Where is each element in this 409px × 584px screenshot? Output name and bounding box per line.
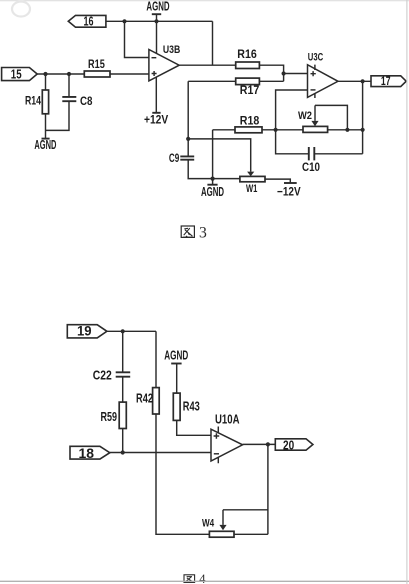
- wire W4 wiper bracket: [223, 509, 268, 511]
- op-amp U3B: [149, 50, 179, 81]
- wire to U3C + input: [284, 73, 308, 75]
- page bottom rule: [0, 580, 409, 582]
- resistor R18: [235, 127, 262, 133]
- svg-text:U3C: U3C: [308, 51, 323, 63]
- svg-text:19: 19: [77, 323, 92, 339]
- svg-text:R14: R14: [25, 96, 41, 108]
- junction dot: [266, 442, 270, 446]
- capacitor C22: [122, 331, 124, 372]
- net tag 15: [2, 68, 38, 81]
- svg-text:U3B: U3B: [163, 44, 180, 56]
- W4 wiper arrow: [222, 510, 224, 525]
- wire R17 right: [259, 80, 283, 82]
- wire feedback vertical fig4: [267, 444, 269, 534]
- svg-text:C22: C22: [93, 368, 112, 382]
- svg-text:R15: R15: [88, 59, 105, 71]
- resistor R43: [173, 393, 180, 420]
- svg-text:R43: R43: [183, 400, 200, 414]
- caption 图3: [181, 226, 194, 237]
- potentiometer W2: [303, 126, 328, 132]
- net tag 19: [67, 325, 107, 338]
- net tag 16: [68, 15, 106, 27]
- junction dot: [154, 19, 158, 23]
- junction dot: [121, 329, 125, 333]
- net tag 18: [70, 446, 110, 459]
- svg-text:R42: R42: [136, 391, 153, 405]
- wire U10A output: [243, 443, 276, 445]
- wire W2 wiper bracket: [315, 105, 347, 129]
- svg-text:R17: R17: [240, 83, 260, 97]
- wire R17-left vertical: [187, 81, 189, 156]
- svg-text:16: 16: [84, 15, 94, 29]
- resistor R16: [236, 62, 260, 69]
- wire R17 left: [188, 80, 236, 82]
- svg-text:W4: W4: [202, 518, 215, 530]
- wire U3B output: [179, 64, 236, 66]
- svg-text:C9: C9: [169, 153, 179, 165]
- page top rule: [0, 0, 409, 2]
- junction dot: [274, 128, 278, 132]
- resistor R59: [119, 402, 126, 428]
- svg-text:U10A: U10A: [215, 413, 240, 427]
- ground AGND mid: [207, 184, 217, 186]
- resistor R17: [236, 78, 260, 85]
- capacitor C8: [68, 74, 70, 96]
- junction dot: [211, 177, 215, 181]
- junction dot: [122, 19, 126, 23]
- caption 图4: [184, 575, 195, 583]
- svg-text:R59: R59: [101, 410, 118, 424]
- junction dot: [361, 128, 365, 132]
- resistor R15: [84, 71, 110, 77]
- svg-text:R18: R18: [240, 113, 260, 127]
- wire tag18 to U10A - input: [110, 452, 211, 454]
- op-amp U10A: [211, 429, 243, 461]
- svg-text:4: 4: [199, 572, 206, 584]
- wire AGND mid vertical: [212, 130, 214, 185]
- op-amp U3C: [308, 65, 339, 98]
- wire W1 wiper link: [188, 139, 251, 172]
- wire R42 bottom to W4 left: [156, 414, 209, 534]
- junction dot: [361, 79, 365, 83]
- wire R16 to U3C + node: [259, 65, 283, 81]
- svg-text:18: 18: [79, 445, 95, 461]
- svg-text:W1: W1: [246, 183, 257, 195]
- net tag 20: [275, 439, 313, 450]
- power symbol AGND fig4: [164, 348, 188, 363]
- capacitor C9: [180, 156, 194, 159]
- svg-text:C8: C8: [80, 94, 93, 108]
- resistor R42: [153, 388, 160, 414]
- wire tag15 to R15: [37, 73, 84, 75]
- potentiometer W1: [240, 176, 265, 181]
- junction dot: [186, 137, 190, 141]
- junction dot node C8: [67, 72, 71, 76]
- net tag 17: [371, 76, 406, 87]
- wire tag19 right: [107, 330, 156, 332]
- svg-text:W2: W2: [298, 110, 312, 122]
- svg-text:AGND: AGND: [146, 0, 169, 14]
- svg-text:C10: C10: [302, 160, 320, 174]
- wire U3C output: [338, 80, 371, 82]
- svg-text:R16: R16: [237, 47, 257, 61]
- wire U3C - input down: [276, 90, 308, 130]
- wire AGND stub to U3B top: [156, 14, 158, 55]
- wire R18 right to W2: [262, 129, 303, 131]
- wire W4 right: [234, 533, 268, 535]
- svg-text:3: 3: [199, 224, 207, 241]
- wire to U3B inverting input: [125, 21, 149, 57]
- capacitor C10: [276, 130, 309, 154]
- potentiometer W4: [209, 531, 234, 537]
- power symbol -12V: [284, 182, 297, 184]
- scan smudge top-left: [12, 2, 30, 17]
- wire tag16 to feedback: [106, 20, 213, 22]
- svg-text:AGND: AGND: [164, 348, 188, 363]
- svg-text:AGND: AGND: [34, 138, 56, 152]
- resistor R14: [45, 74, 47, 90]
- svg-text:17: 17: [381, 76, 391, 88]
- W2 wiper arrow: [314, 105, 316, 121]
- svg-text:AGND: AGND: [201, 185, 224, 199]
- power symbol AGND top: [146, 0, 169, 14]
- ground AGND lower-left: [42, 138, 50, 140]
- svg-text:+12V: +12V: [144, 112, 168, 126]
- power symbol +12V: [152, 112, 160, 114]
- svg-text:−12V: −12V: [277, 185, 301, 199]
- junction dot: [121, 450, 125, 454]
- wire R15 to U3B +: [110, 73, 149, 75]
- page right edge rule: [406, 0, 408, 584]
- wire R43 to U10A + input: [177, 420, 211, 435]
- wire W2 right: [328, 129, 363, 131]
- wire U3B power stub: [155, 77, 157, 112]
- junction dot: [282, 71, 286, 75]
- junction dot node R14: [43, 72, 47, 76]
- svg-text:15: 15: [11, 67, 22, 82]
- W1 wiper arrow: [247, 172, 254, 177]
- wire feedback vertical: [212, 21, 214, 65]
- svg-text:20: 20: [283, 437, 294, 452]
- wire feedback right vertical: [362, 81, 364, 154]
- wire 19-node down to R42: [155, 331, 157, 387]
- junction dot: [345, 128, 349, 132]
- wire W1 right to -12V: [265, 179, 290, 183]
- wire R18 left to AGND: [213, 129, 235, 131]
